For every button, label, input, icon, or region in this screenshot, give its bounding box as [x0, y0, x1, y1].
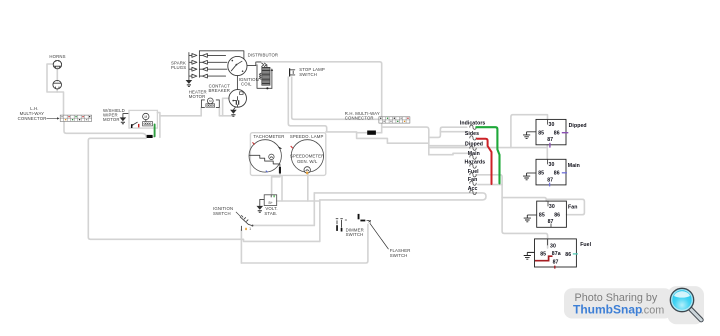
wire horn2 drop: [56, 89, 58, 92]
wire dipped to main link: [546, 145, 548, 160]
wire sides fuse feed: [440, 131, 466, 133]
fuse dipped: [470, 146, 476, 150]
spark plug 1: [189, 54, 197, 58]
svg-text:Fan: Fan: [568, 204, 577, 210]
svg-text:2: 2: [252, 224, 254, 228]
svg-text:86: 86: [554, 130, 560, 136]
wire fan fuse row tap: [478, 184, 502, 186]
relay Fan: [537, 201, 567, 227]
svg-text:B+: B+: [269, 201, 273, 205]
tachometer: [249, 140, 281, 173]
svg-text:86: 86: [554, 212, 560, 218]
wire CB feed drop: [223, 98, 229, 116]
wiper red lead: [138, 124, 140, 128]
svg-text:87a: 87a: [552, 251, 561, 257]
fuse sides: [470, 136, 476, 140]
svg-text:Main: Main: [568, 163, 580, 169]
fuse fuel: [470, 173, 476, 177]
svg-text:SWITCH: SWITCH: [213, 211, 231, 216]
stop lamp switch: [290, 68, 295, 76]
spark plugs ground: [186, 80, 193, 86]
wire junction stub to green: [153, 136, 155, 138]
green wire indicators feed: [476, 127, 499, 183]
svg-text:85: 85: [538, 170, 544, 176]
svg-text:BREAKER: BREAKER: [209, 88, 231, 93]
svg-text:Dipped: Dipped: [569, 123, 587, 129]
HT lead 4: [199, 74, 225, 78]
wire heater left leg: [200, 108, 202, 116]
wire horn feed loop: [47, 64, 64, 115]
svg-text:M: M: [144, 115, 147, 119]
svg-text:85: 85: [538, 130, 544, 136]
wire RH strip drop: [381, 123, 383, 132]
wiper switch contact: [133, 122, 137, 125]
wire fan relay feed: [502, 198, 546, 202]
pointer arrow to LH connector: [47, 117, 58, 119]
wire RH strip to fuse panel: [382, 127, 429, 155]
svg-text:MOTOR: MOTOR: [103, 117, 120, 122]
wiper black lead: [131, 124, 133, 128]
svg-text:STAB.: STAB.: [264, 211, 277, 216]
svg-text:30: 30: [549, 204, 555, 210]
wiper green lead: [154, 124, 156, 136]
svg-text:DISTRIBUTOR: DISTRIBUTOR: [248, 52, 279, 57]
wiper ground: [120, 114, 129, 124]
wire indicators fuse feed riser: [429, 127, 467, 137]
distributor: [228, 56, 247, 75]
relay Main: [536, 159, 567, 186]
wire fan relay 86 loop: [546, 199, 584, 214]
svg-text:GEN. W/L: GEN. W/L: [297, 159, 318, 164]
svg-text:CONNECTOR: CONNECTOR: [345, 116, 374, 121]
svg-text:30: 30: [550, 243, 556, 249]
svg-text:MOTOR: MOTOR: [189, 94, 206, 99]
svg-text:86: 86: [565, 252, 571, 258]
wire ignition switch down leg: [240, 230, 242, 263]
fuse acc: [470, 190, 476, 194]
HT lead 1: [199, 54, 225, 58]
spark plug 2: [189, 60, 197, 64]
svg-text:SPEEDOMETER: SPEEDOMETER: [290, 153, 325, 158]
wire fuel fuse tap: [476, 175, 548, 248]
wire cluster corner stepped run: [326, 132, 429, 143]
tach connector bar: [279, 167, 281, 174]
ignition switch pointer: [236, 212, 241, 217]
svg-text:87: 87: [547, 137, 553, 143]
wire speedo lamp drop: [307, 174, 309, 201]
wire heater right leg: [218, 108, 220, 116]
instrument cluster box: [250, 133, 325, 176]
thumbsnap badge: [564, 286, 704, 324]
svg-text:87: 87: [553, 259, 559, 265]
ground fuel relay: [524, 252, 535, 259]
heater motor: [201, 98, 219, 107]
coil terminal chevrons: [262, 63, 267, 66]
svg-text:COIL: COIL: [241, 82, 252, 87]
svg-text:Dipped: Dipped: [465, 142, 483, 148]
HT lead bus: [198, 51, 200, 77]
svg-text:HORNS: HORNS: [49, 54, 65, 59]
svg-text:SWITCH: SWITCH: [390, 253, 408, 258]
svg-text:Hazards: Hazards: [465, 160, 486, 166]
svg-text:30: 30: [549, 122, 555, 128]
RH black inline connector: [367, 131, 376, 135]
king lead to distributor: [199, 51, 244, 59]
magnifier icon: [670, 288, 701, 320]
HT lead 2: [199, 60, 227, 64]
red wire dipped feed: [477, 139, 492, 184]
relay Dipped: [536, 119, 568, 147]
wire black connector right stub: [376, 132, 382, 134]
ignition switch: [240, 216, 253, 231]
HT lead 3: [199, 67, 227, 71]
wire volt stab B+ run: [277, 200, 320, 202]
contact breaker: [229, 90, 247, 108]
spark plug 3: [189, 67, 197, 71]
black inline connector: [147, 135, 153, 138]
svg-text:Fuel: Fuel: [580, 242, 591, 248]
wire pill bottom riser: [319, 200, 321, 242]
svg-text:SWITCH: SWITCH: [346, 232, 364, 237]
relay Fuel: [535, 239, 578, 269]
ground dipped relay: [523, 132, 536, 139]
horn 1: [53, 60, 61, 68]
contact breaker ground: [230, 107, 237, 116]
wire black connector left stub: [357, 132, 368, 134]
svg-text:85: 85: [539, 212, 545, 218]
w/shield wiper motor box: [129, 110, 157, 128]
svg-text:TACHOMETER: TACHOMETER: [253, 134, 284, 139]
distributor to coil wire: [247, 62, 261, 66]
dimmer switch: [336, 219, 347, 232]
ground main relay: [523, 173, 536, 180]
wire pill top riser to ignition: [313, 193, 315, 226]
wire heater to CB ground run: [219, 115, 232, 117]
svg-text:85: 85: [540, 252, 546, 258]
svg-text:86: 86: [554, 170, 560, 176]
wire dimmer feed pill: [314, 193, 486, 200]
wire dipped relay riser: [511, 115, 548, 148]
flasher switch: [358, 214, 371, 222]
svg-text:ThumbSnap: ThumbSnap: [573, 302, 642, 316]
volt stab ground: [257, 199, 265, 212]
wire top long run coil to RH connector: [257, 62, 382, 117]
wire cluster bottom drop: [281, 176, 283, 201]
contact breaker link from distributor: [236, 76, 238, 90]
wire LH connector to wiper feed: [64, 122, 146, 137]
svg-text:SWITCH: SWITCH: [299, 72, 317, 77]
speedometer: [290, 140, 325, 175]
svg-text:30: 30: [549, 162, 555, 168]
fuse main: [470, 155, 476, 159]
wire ignition switch to cluster run: [253, 224, 314, 226]
wire stop switch leg B to RH strip: [292, 77, 379, 119]
wire horn link: [56, 67, 58, 81]
LH multi-way connector: [60, 115, 91, 121]
fuse fan: [470, 181, 476, 185]
flasher switch pointer: [370, 223, 389, 249]
wire accessory run to heater: [160, 115, 201, 117]
wire dipped fuse feed: [429, 145, 466, 147]
svg-text:.com: .com: [641, 304, 664, 316]
spark plug bus: [188, 53, 190, 80]
wire main fuse feed: [429, 153, 469, 154]
ignition coil: [257, 65, 273, 90]
wire bottom run to flasher: [241, 224, 368, 263]
svg-text:PLUGS: PLUGS: [171, 65, 186, 70]
wire ignition jog run: [241, 239, 319, 241]
wire long feed to main relay: [429, 147, 548, 149]
wire main feed run to ignition switch: [88, 138, 241, 239]
svg-text:Fuel: Fuel: [468, 169, 479, 175]
svg-text:87: 87: [547, 177, 553, 183]
fuse hazards: [470, 164, 476, 168]
wire stop switch leg A: [288, 77, 326, 132]
svg-text:CONNECTOR: CONNECTOR: [18, 116, 47, 121]
horn 2: [53, 80, 62, 89]
ground fan relay: [524, 215, 537, 222]
wire tach to volt stab: [272, 174, 280, 195]
spark plug 4: [189, 74, 197, 78]
wire wiper right riser: [157, 113, 160, 138]
fuse indicators: [470, 125, 476, 129]
svg-text:SPEEDO. LAMP: SPEEDO. LAMP: [290, 134, 324, 139]
voltage stabiliser: [264, 195, 277, 206]
RH multi-way connector: [379, 117, 410, 123]
